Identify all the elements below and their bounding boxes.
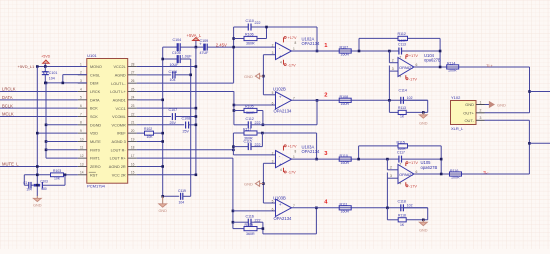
- svg-text:C105: C105: [172, 51, 181, 55]
- wire +in U103B from GND net: [263, 202, 275, 204]
- capacitor C119 104: [180, 193, 182, 200]
- resistor R101 10K on IREF pin20: [137, 132, 145, 134]
- wire U104 output: [414, 66, 530, 68]
- capacitor C112 222 feedback: [234, 124, 248, 126]
- svg-text:+5VD: +5VD: [41, 55, 50, 59]
- svg-text:R111: R111: [340, 203, 348, 207]
- wire pin23 VCC1 row: [137, 107, 196, 109]
- wire reset RC loop: [23, 175, 25, 185]
- svg-text:C117: C117: [397, 151, 405, 155]
- wire -in net vertical x=233.6: [233, 27, 235, 83]
- svg-text:1K: 1K: [400, 223, 405, 227]
- wire vertical x=190.7 from C105: [190, 59, 192, 75]
- capacitor C105 10UF in series: [163, 58, 177, 60]
- wire U103A output node 3: [292, 158, 388, 160]
- svg-text:AGND 3: AGND 3: [112, 140, 126, 144]
- wire DATA to pin 5: [0, 99, 78, 101]
- svg-text:222: 222: [255, 21, 261, 25]
- svg-text:4: 4: [400, 74, 402, 78]
- svg-text:TL+: TL+: [486, 64, 492, 68]
- svg-text:102: 102: [407, 96, 413, 100]
- svg-text:C118: C118: [398, 200, 406, 204]
- svg-text:4: 4: [400, 182, 402, 186]
- resistor R115 160R feedback U105: [358, 146, 360, 159]
- Y102 pin 3 OUT-: [476, 119, 485, 121]
- wire U102B output node 2: [292, 99, 428, 101]
- svg-text:MONO: MONO: [90, 65, 102, 69]
- svg-text:28: 28: [131, 62, 135, 66]
- resistor R103 10K: [24, 174, 50, 176]
- svg-text:C113: C113: [398, 42, 406, 46]
- wire LRCLK to pin 4: [0, 90, 78, 92]
- svg-text:222: 222: [255, 218, 261, 222]
- svg-text:8: 8: [80, 121, 82, 125]
- svg-text:FMT0: FMT0: [90, 148, 100, 152]
- wire feedback right vertical: [266, 27, 268, 39]
- svg-text:2: 2: [390, 166, 392, 170]
- svg-text:GND: GND: [419, 229, 428, 233]
- svg-text:5: 5: [272, 91, 274, 95]
- svg-text:4: 4: [280, 168, 282, 172]
- op-amp U103A OPA2134: [276, 151, 292, 168]
- svg-text:104: 104: [49, 77, 55, 81]
- svg-text:R115: R115: [397, 140, 405, 144]
- svg-text:OUT+: OUT+: [463, 111, 474, 116]
- svg-text:OPA2134: OPA2134: [302, 149, 321, 154]
- svg-text:5: 5: [80, 96, 82, 100]
- wire U103B output node 4: [292, 207, 428, 209]
- capacitor C102 104: [28, 182, 30, 189]
- svg-text:C116: C116: [246, 215, 254, 219]
- wire feedback to output B: [316, 100, 318, 125]
- svg-text:27: 27: [131, 71, 135, 75]
- svg-text:GND: GND: [497, 102, 506, 107]
- wire +in U102B from GND net: [263, 94, 275, 96]
- resistor R114 100R output: [447, 65, 459, 69]
- wire feedback to output: [316, 27, 318, 51]
- wire LOUT L+ pin25 to node: [137, 90, 234, 92]
- svg-text:10K: 10K: [147, 135, 154, 139]
- U101 pin 10 MUTE: [78, 140, 87, 142]
- svg-text:6: 6: [272, 207, 274, 211]
- op-amp U104 OPA627: [398, 58, 414, 77]
- svg-text:360R: 360R: [246, 111, 255, 115]
- svg-text:CHSL: CHSL: [90, 73, 100, 77]
- ground GND left: [36, 196, 38, 199]
- svg-text:R103: R103: [53, 169, 61, 173]
- svg-text:R112: R112: [398, 32, 406, 36]
- wire DEM net vertical x=46: [45, 83, 47, 158]
- svg-text:DATA: DATA: [2, 95, 13, 100]
- svg-text:160R: 160R: [341, 161, 350, 165]
- resistor R113 1K ground leg: [388, 100, 390, 112]
- svg-text:MUTE: MUTE: [90, 140, 101, 144]
- resistor R108 160R series: [339, 98, 351, 102]
- svg-text:104: 104: [179, 201, 185, 205]
- svg-text:IREF: IREF: [117, 132, 126, 136]
- svg-text:6: 6: [272, 101, 274, 105]
- wire to -in U102B: [234, 104, 276, 106]
- svg-text:1K: 1K: [400, 115, 405, 119]
- U101 pin 4 LRCK: [78, 90, 87, 92]
- svg-text:DGND: DGND: [90, 123, 101, 127]
- svg-text:U101: U101: [87, 53, 97, 58]
- svg-text:DATA: DATA: [90, 98, 100, 102]
- resistor R107 160R series: [339, 49, 351, 53]
- svg-text:AGND1: AGND1: [113, 98, 126, 102]
- svg-text:C112: C112: [246, 117, 254, 121]
- svg-text:RST: RST: [90, 173, 98, 177]
- resistor R105 360R feedback: [234, 110, 244, 112]
- wire to -in U103B: [233, 210, 276, 212]
- wire feedback loop to output C: [316, 133, 318, 159]
- wire ground bottom row: [163, 195, 180, 197]
- svg-text:+: +: [279, 55, 282, 60]
- wire to -in U103A: [233, 154, 275, 156]
- U101 pin 23 VCC1: [128, 107, 137, 109]
- svg-text:19: 19: [131, 137, 135, 141]
- wire +5VA vertical to VCC pins: [195, 47, 197, 175]
- svg-text:FMT1: FMT1: [90, 157, 100, 161]
- svg-text:7: 7: [400, 55, 402, 59]
- svg-text:680: 680: [41, 187, 47, 191]
- wire output L+ exit right: [530, 91, 550, 93]
- svg-text:R118: R118: [398, 214, 406, 218]
- U101 pin 9 VDD: [78, 132, 87, 134]
- IC U101 PCM1794 DAC body: [87, 59, 128, 184]
- svg-text:17: 17: [131, 154, 135, 158]
- op-amp U103B OPA2134: [276, 199, 292, 216]
- svg-text:2.45V: 2.45V: [216, 43, 227, 48]
- svg-text:+17V: +17V: [288, 145, 297, 149]
- capacitor C114 102 ground leg: [400, 97, 402, 104]
- svg-text:24: 24: [131, 96, 135, 100]
- U101 pin 18 LOUT R-: [128, 149, 137, 151]
- svg-text:160R: 160R: [341, 209, 350, 213]
- svg-text:GND: GND: [465, 102, 474, 107]
- svg-text:12: 12: [80, 154, 84, 158]
- U101 pin 1 MONO: [78, 66, 87, 68]
- svg-text:MUTE_L: MUTE_L: [2, 162, 19, 167]
- svg-text:GND: GND: [419, 122, 428, 126]
- svg-text:6: 6: [416, 170, 418, 174]
- svg-text:C106: C106: [169, 70, 178, 74]
- wire DEM pin3 row: [45, 82, 87, 84]
- wire feedback loop bottom D: [262, 222, 264, 234]
- U101 pin 11 FMT0: [78, 149, 87, 151]
- svg-text:OPA2134: OPA2134: [274, 109, 293, 114]
- svg-text:13: 13: [80, 162, 84, 166]
- capacitor C116 222 feedback: [233, 221, 248, 223]
- svg-text:7: 7: [80, 112, 82, 116]
- svg-text:R107: R107: [340, 46, 349, 50]
- wire pin22 VCOML row with capacitor C107 25V: [137, 115, 171, 117]
- wire output L- exit right: [529, 142, 550, 144]
- Y102 pin 1 GND: [476, 104, 485, 106]
- wire -in net vertical D: [232, 158, 234, 228]
- svg-text:PCM1794: PCM1794: [87, 184, 106, 189]
- U101 pin 6 BCK: [78, 107, 87, 109]
- wire node4 to +in U105: [386, 173, 388, 208]
- svg-text:10: 10: [80, 137, 84, 141]
- power flag -17V for U104: [405, 75, 407, 79]
- svg-text:OPA2134: OPA2134: [274, 216, 293, 221]
- wire pin16 AGND2R row: [137, 165, 163, 167]
- svg-text:160R: 160R: [341, 102, 350, 106]
- svg-text:LOUT L-: LOUT L-: [111, 82, 126, 86]
- capacitor C104 electrolytic in series on rail: [177, 43, 179, 51]
- svg-text:1: 1: [293, 155, 295, 159]
- svg-text:R113: R113: [398, 106, 406, 110]
- wire -in net vertical C: [232, 133, 234, 155]
- U101 pin 14 RST: [78, 174, 87, 176]
- capacitor C101 104: [44, 67, 46, 72]
- svg-text:U103B: U103B: [273, 196, 286, 201]
- svg-text:VDD: VDD: [90, 132, 98, 136]
- U101 pin 3 DEM: [78, 82, 87, 84]
- op-amp U102B OPA2134: [276, 92, 292, 109]
- svg-text:+17V: +17V: [409, 161, 418, 165]
- svg-text:C119: C119: [178, 189, 186, 193]
- U101 pin 12 FMT1: [78, 157, 87, 159]
- svg-text:20: 20: [131, 129, 135, 133]
- power flag +17V for U102A: [283, 37, 285, 42]
- svg-text:R114: R114: [447, 62, 455, 66]
- power flag -17V for U103A: [283, 168, 285, 172]
- svg-text:26: 26: [131, 79, 135, 83]
- U101 pin 24 AGND1: [128, 99, 137, 101]
- wire OUT- to lower channel: [485, 119, 530, 121]
- U101 pin 13 ZERO: [78, 165, 87, 167]
- wire VDD pin9 row to +5VD rail: [37, 132, 78, 134]
- wire pin27 AGND row with capacitor C106 104: [137, 74, 172, 76]
- svg-text:C1: C1: [23, 181, 27, 185]
- U101 pin 25 LOUT L+: [128, 90, 137, 92]
- U101 pin 7 SCK: [78, 115, 87, 117]
- svg-text:+: +: [279, 203, 282, 208]
- U101 pin 26 LOUT L-: [128, 82, 137, 84]
- svg-text:100R: 100R: [451, 176, 460, 180]
- wire +5VA rail: [163, 46, 177, 48]
- svg-text:ZERO: ZERO: [90, 165, 101, 169]
- svg-text:3: 3: [480, 116, 482, 120]
- svg-text:14: 14: [80, 171, 84, 175]
- svg-text:-17V: -17V: [409, 77, 417, 81]
- capacitor C118 102 ground leg: [400, 204, 402, 211]
- svg-text:opa627B: opa627B: [421, 165, 438, 170]
- svg-text:BCLK: BCLK: [2, 103, 13, 108]
- wire BCLK to pin 6: [0, 107, 78, 109]
- U101 pin 8 DGND: [78, 124, 87, 126]
- svg-text:C107: C107: [169, 108, 178, 112]
- resistor R111 160R series: [339, 206, 351, 210]
- svg-text:VCOML: VCOML: [112, 115, 126, 119]
- wire +in U102A to GND net: [263, 54, 275, 56]
- wire LOUT R- pin18 to node: [137, 149, 234, 151]
- wire LOUT L- pin26 to node: [137, 82, 234, 84]
- svg-text:OPA627: OPA627: [399, 65, 413, 70]
- svg-text:1: 1: [293, 47, 295, 51]
- capacitor C103 electrolytic: [34, 184, 41, 187]
- wire AGND drop x=190.7: [190, 75, 192, 196]
- svg-text:R106: R106: [245, 32, 254, 36]
- connector Y102 XLR_L: [451, 101, 477, 125]
- wire vertical +5VD/GND rail left: [36, 67, 38, 197]
- wire pin28 VCC2L row: [137, 66, 196, 68]
- svg-text:16: 16: [131, 162, 135, 166]
- svg-text:8: 8: [295, 149, 297, 153]
- svg-text:GND: GND: [158, 209, 167, 213]
- svg-text:18: 18: [131, 146, 135, 150]
- svg-text:R116: R116: [450, 169, 458, 173]
- svg-text:OPA2134: OPA2134: [302, 41, 321, 46]
- resistor R112 160R feedback U104: [358, 38, 360, 51]
- power flag +17V for U103A: [283, 146, 285, 151]
- svg-text:+5VA_L: +5VA_L: [187, 33, 202, 38]
- wire DGND pin8 row: [46, 124, 78, 126]
- wire FMT1 pin12 row: [46, 157, 78, 159]
- svg-text:R105: R105: [245, 105, 254, 109]
- wire -in net vertical B: [233, 91, 235, 125]
- wire OUT+ to upper channel: [485, 112, 530, 114]
- power flag +17V for U105: [405, 163, 407, 166]
- svg-text:102: 102: [407, 204, 413, 208]
- svg-text:AGND: AGND: [115, 73, 126, 77]
- wire feedback right vertical C: [261, 133, 263, 147]
- capacitor C115 222 feedback: [233, 146, 248, 148]
- svg-text:3: 3: [392, 67, 394, 71]
- Y102 pin 2 OUT+: [476, 112, 485, 114]
- svg-text:21: 21: [131, 121, 135, 125]
- svg-text:11: 11: [80, 146, 84, 150]
- svg-text:R117: R117: [243, 127, 251, 131]
- svg-text:-17V: -17V: [288, 171, 296, 175]
- svg-text:2: 2: [392, 58, 394, 62]
- svg-text:BCK: BCK: [90, 107, 98, 111]
- svg-text:GND: GND: [33, 204, 42, 208]
- wire +5VD to pin1: [37, 66, 87, 68]
- wire node2 to +in U104: [388, 66, 390, 101]
- U101 pin 2 CHSL: [78, 74, 87, 76]
- wire feedback right vertical U105: [440, 146, 442, 174]
- svg-text:-17V: -17V: [409, 185, 417, 189]
- ground GND for U105 leg: [422, 220, 424, 222]
- op-amp U102A OPA2134: [276, 42, 292, 59]
- U101 pin 17 LOUT R+: [128, 157, 137, 159]
- wire node3 to -in U105: [386, 159, 388, 170]
- svg-text:3: 3: [80, 79, 82, 83]
- svg-text:C101: C101: [49, 71, 58, 75]
- svg-text:22: 22: [131, 112, 135, 116]
- wire +in U103A to GND net: [263, 162, 275, 164]
- svg-text:GND: GND: [244, 182, 253, 187]
- power flag +17V for U104: [405, 56, 407, 59]
- svg-text:104: 104: [26, 187, 32, 191]
- svg-text:1: 1: [480, 100, 482, 104]
- svg-text:1: 1: [80, 62, 82, 66]
- svg-text:+5VD_L1: +5VD_L1: [18, 64, 36, 69]
- wire U102A output node 1: [292, 50, 390, 52]
- svg-text:222: 222: [255, 121, 261, 125]
- svg-text:R110: R110: [340, 154, 348, 158]
- svg-text:MCLK: MCLK: [2, 112, 14, 117]
- op-amp U105 OPA627: [398, 165, 414, 184]
- svg-text:160R: 160R: [341, 53, 350, 57]
- svg-text:222: 222: [255, 143, 261, 147]
- U101 pin 5 DATA: [78, 99, 87, 101]
- U101 pin 21 VCOMR: [128, 124, 137, 126]
- capacitor C110 222 feedback: [234, 26, 249, 28]
- svg-text:+17V: +17V: [288, 36, 297, 40]
- svg-text:SCK: SCK: [90, 115, 98, 119]
- svg-text:2: 2: [324, 92, 327, 98]
- svg-text:R108: R108: [340, 95, 349, 99]
- svg-text:15: 15: [131, 171, 135, 175]
- wire MUTE_L to pin 13: [0, 165, 78, 167]
- wire pin19 AGND3 row: [137, 140, 163, 142]
- svg-text:4: 4: [280, 61, 282, 65]
- svg-text:VCC1: VCC1: [116, 107, 126, 111]
- power flag -17V for U102A: [283, 60, 285, 65]
- U101 pin 28 VCC2L: [128, 66, 137, 68]
- resistor R117 360R feedback on loop row: [233, 132, 244, 134]
- wire MCLK to pin 7: [0, 115, 78, 117]
- wire GND rail vertical x=162.7: [162, 47, 164, 196]
- svg-text:2: 2: [272, 151, 274, 155]
- svg-text:360R: 360R: [246, 42, 255, 46]
- wire MUTE pin10 row: [46, 140, 78, 142]
- svg-text:100R: 100R: [448, 69, 457, 73]
- svg-text:2: 2: [480, 109, 482, 113]
- svg-text:2: 2: [80, 71, 82, 75]
- svg-text:GND: GND: [244, 74, 253, 79]
- svg-text:C108: C108: [182, 117, 191, 121]
- svg-text:LOUT R-: LOUT R-: [111, 148, 127, 152]
- svg-text:47UF: 47UF: [200, 51, 210, 55]
- power port GND arrow at connector: [485, 104, 490, 106]
- svg-text:VCOMR: VCOMR: [112, 123, 126, 127]
- svg-text:10K: 10K: [54, 176, 61, 180]
- svg-text:R102: R102: [144, 127, 152, 131]
- svg-text:9: 9: [80, 129, 82, 133]
- wire feedback right vertical B: [262, 111, 264, 125]
- svg-text:6: 6: [80, 104, 82, 108]
- wire feedback right vertical U104: [439, 38, 441, 67]
- svg-text:2: 2: [272, 44, 274, 48]
- svg-text:XLR_L: XLR_L: [451, 126, 464, 131]
- svg-text:-17V: -17V: [288, 63, 296, 67]
- svg-text:25: 25: [131, 87, 135, 91]
- resistor R117b 1K ground leg: [386, 208, 388, 220]
- svg-text:1.0UF: 1.0UF: [182, 55, 193, 59]
- svg-text:5: 5: [272, 199, 274, 203]
- U101 pin 16 AGND 2R: [128, 165, 137, 167]
- ground GND for U104 leg: [422, 112, 424, 114]
- svg-text:+: +: [279, 95, 282, 100]
- svg-text:7: 7: [400, 163, 402, 167]
- wire FMT0 pin11 row: [46, 149, 78, 151]
- svg-text:360R: 360R: [246, 232, 255, 236]
- svg-text:6: 6: [416, 63, 418, 67]
- wire LOUT R+ pin17 to node: [137, 157, 233, 159]
- power flag -17V for U105: [405, 182, 407, 186]
- svg-text:C110: C110: [246, 19, 254, 23]
- svg-text:LRCK: LRCK: [90, 90, 101, 94]
- svg-text:23: 23: [131, 104, 135, 108]
- svg-text:C115: C115: [244, 140, 252, 144]
- resistor R116 100R output: [450, 172, 462, 176]
- svg-text:25V: 25V: [183, 129, 190, 133]
